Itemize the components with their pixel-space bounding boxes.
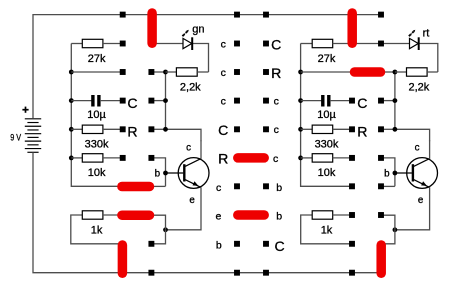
label rt red LED: [423, 27, 430, 39]
label b base (left half): [155, 168, 161, 179]
svg-text:R: R: [271, 65, 281, 81]
jumper plug row6 (left half): [122, 182, 150, 192]
svg-text:rt: rt: [423, 27, 430, 39]
label e socket row7 middle-left: [215, 211, 221, 223]
value label 27k (right half): [318, 53, 336, 65]
jumper plug bottom (right half col B): [376, 245, 386, 273]
svg-text:C: C: [357, 95, 367, 111]
svg-text:C: C: [127, 95, 137, 111]
jumper plug bottom (left half col A): [118, 245, 128, 273]
label e emitter (right half): [418, 195, 424, 206]
junction dots on supply bus (left half): [69, 70, 74, 161]
junction dots coupling bus (left half): [163, 70, 168, 132]
wire row2 bus to socket (left half): [71, 71, 120, 73]
svg-text:gn: gn: [192, 23, 204, 35]
wire LED cathode rail (left half): [193, 44, 209, 73]
wire row6 to base bus (right half): [383, 185, 395, 187]
transistor (right half): [395, 158, 438, 189]
socket pins column B (left half): [148, 69, 154, 247]
capacitor 10&#181; (right half): [301, 95, 350, 107]
svg-text:9 V: 9 V: [10, 133, 21, 144]
label c collector (left half): [186, 142, 191, 153]
label c socket row5 middle-right: [273, 153, 278, 165]
label c collector (right half): [415, 142, 420, 153]
socket on top rail (right half col B): [378, 12, 384, 18]
svg-text:10k: 10k: [88, 167, 106, 179]
socket on bottom rail (right half col A): [349, 270, 355, 276]
svg-text:c: c: [273, 153, 278, 165]
value label 10k (left half): [88, 167, 106, 179]
wire LED cathode rail (right half): [419, 44, 438, 73]
resistor 330k (right half): [301, 125, 350, 133]
svg-text:c: c: [415, 142, 420, 153]
resistor 10k (right half): [301, 154, 350, 162]
svg-text:b: b: [384, 168, 390, 179]
wire coupling bus rows2-4 (right half): [383, 72, 430, 141]
label R socket row2 middle-right: [271, 65, 281, 81]
socket on top rail (middle right): [263, 12, 269, 18]
transistor (left half): [166, 158, 210, 189]
svg-text:c: c: [186, 142, 191, 153]
value label 330k (right half): [315, 139, 339, 151]
resistor 1k (left half): [71, 211, 123, 244]
jumper plug row7 (left half): [122, 210, 150, 220]
wire coupling bus rows2-4 (left half): [153, 72, 201, 141]
svg-text:2,2k: 2,2k: [409, 81, 430, 93]
wire supply bus (right half): [301, 44, 351, 187]
label C socket row8 middle-right: [275, 238, 285, 254]
resistor 10k (left half): [71, 154, 120, 162]
junction dots on supply bus (right half): [298, 70, 303, 161]
LED diode (left half): [151, 37, 192, 50]
label R socket row5 middle-left: [218, 151, 228, 167]
label c socket row3 middle-left: [221, 96, 226, 108]
svg-text:C: C: [271, 36, 281, 52]
label C capacitor socket (right half): [357, 95, 367, 111]
label b base (right half): [384, 168, 390, 179]
svg-text:c: c: [221, 67, 226, 79]
transistor collector wire (left half): [200, 140, 202, 159]
socket on top rail (left half col A): [120, 12, 126, 18]
transistor base network (right half): [383, 158, 397, 186]
svg-text:2,2k: 2,2k: [180, 81, 201, 93]
jumper plug row2 (right half): [355, 67, 381, 77]
label R resistor socket (right half): [357, 124, 367, 140]
label b socket row7 middle-right: [276, 211, 282, 223]
svg-text:C: C: [218, 122, 228, 138]
value label 1k (left half): [91, 224, 103, 236]
svg-text:R: R: [357, 124, 367, 140]
wire row2 bus to socket (right half): [301, 71, 350, 73]
socket pins column A (left half): [120, 41, 126, 161]
value label 2,2k (left half): [180, 81, 201, 93]
svg-text:R: R: [127, 124, 137, 140]
value label 330k (left half): [85, 139, 109, 151]
label gn green LED: [192, 23, 204, 35]
svg-text:330k: 330k: [85, 139, 109, 151]
socket pins middle-left column: [234, 41, 240, 247]
label c socket row6 middle-left: [216, 182, 221, 194]
resistor 330k (left half): [71, 125, 120, 133]
label c socket row2 middle-left: [221, 67, 226, 79]
label C socket row4 middle-left: [218, 122, 228, 138]
resistor 27k (right half): [301, 39, 350, 47]
label c socket row1 middle-left: [221, 38, 226, 50]
socket pins middle-right column: [263, 41, 269, 247]
jumper plug top (left half col B): [147, 13, 157, 43]
svg-text:b: b: [216, 239, 222, 251]
svg-text:1k: 1k: [321, 224, 333, 236]
svg-text:10µ: 10µ: [87, 109, 106, 121]
svg-text:e: e: [189, 195, 195, 206]
wire row6 to base bus (left half): [153, 185, 165, 187]
label C socket row1 middle-right: [271, 36, 281, 52]
resistor 2,2k (left half): [166, 68, 209, 76]
svg-text:c: c: [274, 96, 279, 108]
resistor 27k (left half): [71, 39, 120, 47]
transistor base network (left half): [153, 158, 168, 186]
svg-text:c: c: [221, 38, 226, 50]
socket pins column A (right half): [349, 98, 355, 247]
value label 10&#181; (left half): [87, 109, 106, 121]
battery value label 9 V: [10, 133, 21, 144]
svg-text:b: b: [276, 211, 282, 223]
jumper plug row7 (middle): [238, 210, 264, 220]
label b socket row8 middle-left: [216, 239, 222, 251]
svg-text:27k: 27k: [318, 53, 336, 65]
socket pins column B (right half): [378, 41, 384, 218]
svg-text:1k: 1k: [91, 224, 103, 236]
resistor 2,2k (right half): [395, 68, 438, 76]
socket on bottom rail (middle right): [263, 270, 269, 276]
resistor 1k (right half): [301, 211, 352, 244]
svg-text:27k: 27k: [88, 53, 106, 65]
battery B1 9V: [25, 119, 41, 152]
jumper plug top (right half col A): [347, 13, 357, 43]
junction dots coupling bus (right half): [393, 70, 398, 132]
socket on bottom rail (left half col B): [148, 270, 154, 276]
capacitor 10&#181; (left half): [71, 95, 120, 107]
svg-text:330k: 330k: [315, 139, 339, 151]
svg-text:R: R: [218, 151, 228, 167]
label b socket row6 middle-right: [276, 182, 282, 194]
socket on top rail (middle left): [234, 12, 240, 18]
socket on bottom rail (middle left): [234, 270, 240, 276]
svg-text:10µ: 10µ: [317, 109, 336, 121]
label C capacitor socket (left half): [127, 95, 137, 111]
svg-text:C: C: [275, 238, 285, 254]
svg-text:b: b: [276, 182, 282, 194]
LED diode (right half): [352, 37, 419, 50]
value label 1k (right half): [321, 224, 333, 236]
svg-text:c: c: [221, 96, 226, 108]
transistor collector wire (right half): [429, 140, 431, 159]
LED light arrows (right half): [409, 30, 415, 36]
svg-text:e: e: [215, 211, 221, 223]
svg-text:10k: 10k: [318, 167, 336, 179]
wire bottom supply rail: [33, 152, 379, 272]
wire supply bus (left half): [71, 44, 121, 187]
svg-text:c: c: [216, 182, 221, 194]
battery plus sign: [22, 107, 28, 113]
svg-text:b: b: [155, 168, 161, 179]
label c socket row4 middle-right: [274, 124, 279, 136]
transistor emitter wire (right half): [383, 187, 430, 244]
label R resistor socket (left half): [127, 124, 137, 140]
value label 10k (right half): [318, 167, 336, 179]
value label 27k (left half): [88, 53, 106, 65]
value label 2,2k (right half): [409, 81, 430, 93]
value label 10&#181; (right half): [317, 109, 336, 121]
svg-text:c: c: [274, 124, 279, 136]
wire top supply rail: [33, 15, 381, 119]
svg-text:e: e: [418, 195, 424, 206]
label c socket row3 middle-right: [274, 96, 279, 108]
jumper plug row5 (middle): [238, 153, 264, 163]
LED light arrows (left half): [182, 30, 188, 36]
transistor emitter wire (left half): [153, 187, 201, 244]
label e emitter (left half): [189, 195, 195, 206]
